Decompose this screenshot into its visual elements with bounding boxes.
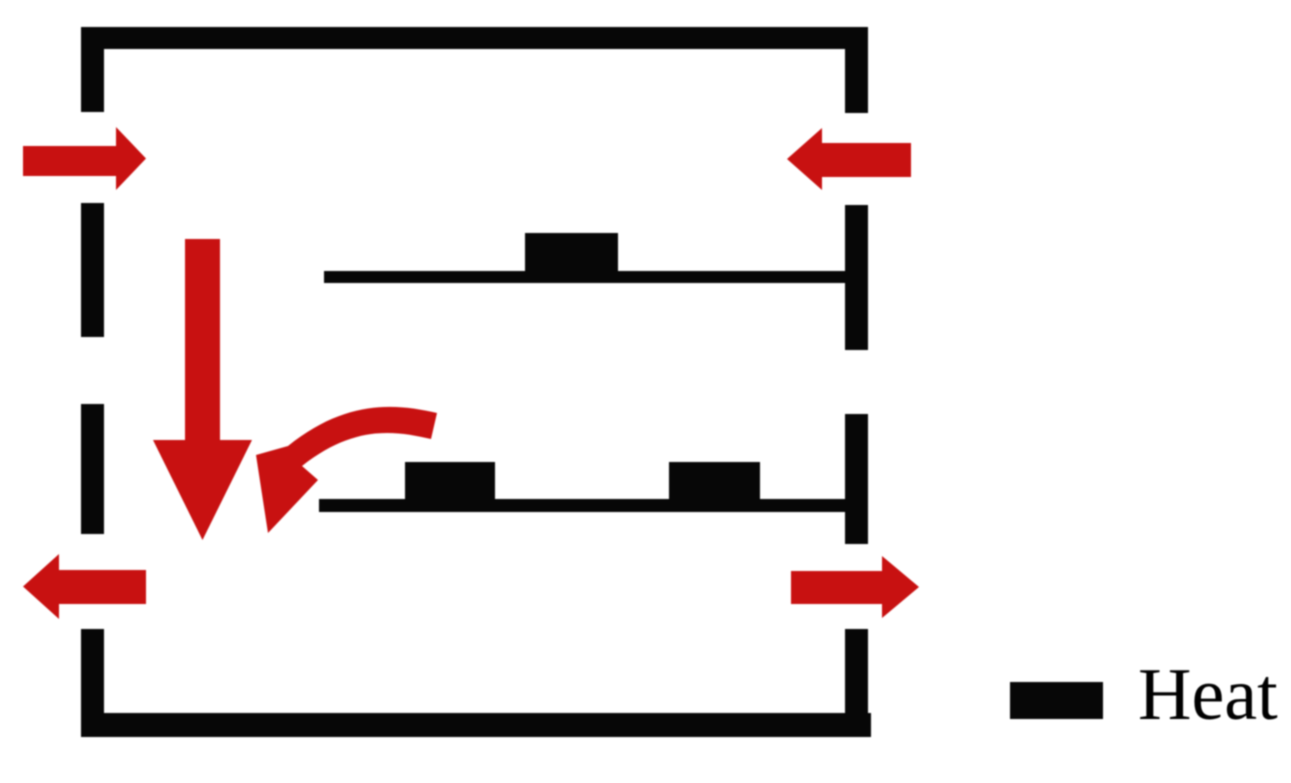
upper shelf heat block bbox=[525, 233, 618, 271]
upper shelf line bbox=[324, 271, 845, 283]
right wall segment 4 bbox=[845, 629, 868, 737]
svg-text:Heat: Heat bbox=[1138, 654, 1278, 736]
red downward arrow body bbox=[185, 239, 220, 440]
legend heat swatch bbox=[1010, 682, 1103, 719]
red inflow arrow top-right bbox=[787, 128, 911, 190]
lower shelf heat block left bbox=[405, 462, 495, 499]
top wall bbox=[81, 27, 868, 49]
red outflow arrow bottom-left bbox=[23, 554, 146, 619]
left wall segment 2 bbox=[81, 203, 104, 337]
bottom wall bbox=[81, 713, 871, 737]
right wall segment 3 bbox=[845, 414, 868, 544]
left wall segment 1 bbox=[81, 27, 104, 112]
red downward arrow head bbox=[153, 440, 252, 540]
red curved arrow (shaft and head) bbox=[256, 407, 437, 533]
red outflow arrow bottom-right bbox=[791, 556, 919, 618]
left wall segment 4 bbox=[81, 629, 104, 737]
red inflow arrow top-left bbox=[23, 127, 146, 190]
left wall segment 3 bbox=[81, 404, 104, 534]
lower shelf heat block right bbox=[669, 462, 760, 499]
lower shelf line bbox=[319, 499, 845, 512]
right wall segment 2 bbox=[845, 205, 868, 350]
right wall segment 1 bbox=[845, 27, 868, 113]
